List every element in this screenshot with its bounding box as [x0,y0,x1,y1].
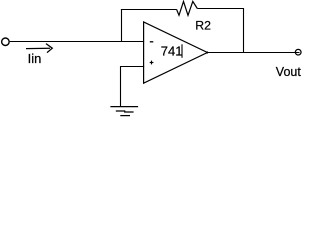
svg-text:Iin: Iin [28,51,42,66]
svg-text:741: 741 [161,44,183,59]
svg-text:R2: R2 [195,19,211,33]
wire: op-amp output to Vout terminal [207,52,299,54]
wire: top feedback, right segment [197,8,244,10]
text cursor bar after 741 [181,44,183,58]
node: op-amp output apex junction [206,51,208,53]
op-amp non-inverting pin mark (+) [150,61,154,65]
wire: feedback left vertical (top wire down to inverting input) [121,9,123,42]
wire: feedback right vertical (down to output node) [243,8,245,53]
resistor R2 (zigzag) [177,1,198,15]
wire: non-inverting input to ground branch [121,67,145,107]
op-amp inverting pin mark (-) [150,41,154,43]
op-amp U1 (741 triangle) [144,22,208,83]
wire: input terminal to inverting input [10,41,144,43]
input terminal (open circle) [2,38,9,46]
wire: top feedback, left segment [121,9,177,11]
Iin current arrow [26,44,52,53]
ground symbol [110,107,138,116]
output terminal Vout (open circle) [295,49,301,55]
svg-text:Vout: Vout [276,65,302,79]
